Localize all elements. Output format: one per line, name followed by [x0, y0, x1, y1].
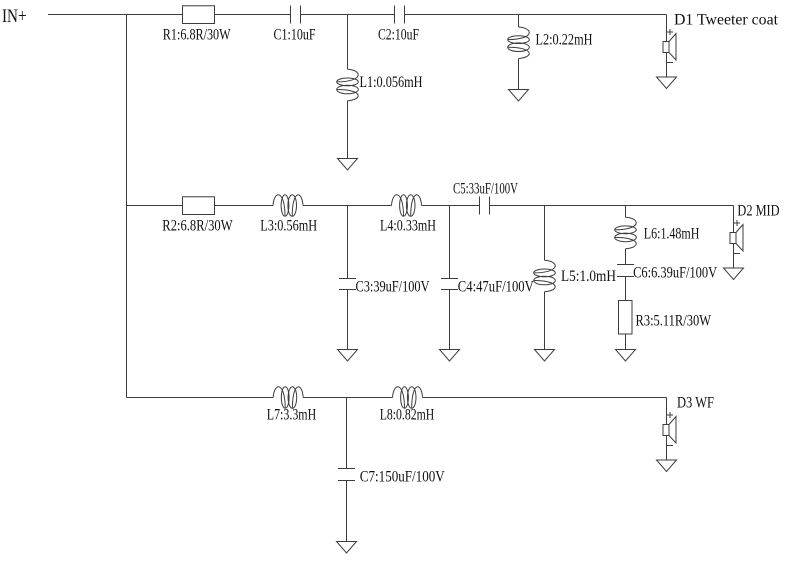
ground below C4: [440, 350, 460, 362]
wire L8 to D3: [423, 397, 667, 399]
svg-text:C7:150uF/100V: C7:150uF/100V: [360, 467, 445, 486]
wire middle row bus to R2: [127, 205, 183, 207]
capacitor C5: [480, 197, 490, 215]
svg-text:C6:6.39uF/100V: C6:6.39uF/100V: [633, 262, 717, 281]
svg-text:D2 MID: D2 MID: [737, 201, 779, 220]
svg-text:C4:47uF/100V: C4:47uF/100V: [458, 276, 534, 295]
svg-text:L7:3.3mH: L7:3.3mH: [267, 405, 317, 424]
inductor L7: [273, 387, 303, 409]
wire junction down to C3: [347, 206, 349, 279]
wire L2 to ground: [518, 59, 520, 90]
wire R2 to L3: [215, 205, 274, 207]
speaker D1: [657, 15, 677, 89]
capacitor C6: [617, 265, 634, 277]
inductor L2: [508, 27, 530, 59]
resistor R1: [183, 6, 215, 24]
capacitor C3: [339, 279, 356, 290]
ground below L2: [509, 90, 529, 102]
wire L5 to ground: [544, 292, 546, 350]
svg-text:R3:5.11R/30W: R3:5.11R/30W: [636, 310, 712, 329]
wire L1 to ground: [347, 101, 349, 159]
svg-text:L2:0.22mH: L2:0.22mH: [536, 30, 593, 49]
wire C6 to R3: [625, 277, 627, 301]
wire bottom row bus corner to L7: [127, 397, 274, 399]
svg-text:L5:1.0mH: L5:1.0mH: [561, 266, 616, 285]
capacitor C7: [338, 469, 355, 481]
wire C7 to ground: [346, 481, 348, 542]
inductor L6: [615, 217, 637, 249]
capacitor C4: [441, 279, 458, 290]
wire R3 to ground: [625, 334, 627, 350]
speaker D2: [724, 206, 744, 280]
ground below C7: [337, 542, 357, 554]
resistor R3: [619, 301, 633, 335]
wire top row IN+ to R1: [48, 14, 183, 16]
svg-text:L4:0.33mH: L4:0.33mH: [380, 216, 436, 235]
svg-text:C3:39uF/100V: C3:39uF/100V: [356, 276, 430, 295]
svg-text:R1:6.8R/30W: R1:6.8R/30W: [163, 24, 231, 43]
ground below L1: [338, 159, 358, 171]
ground below C3: [338, 350, 358, 362]
wire junction down to L6: [625, 206, 627, 218]
svg-text:R2:6.8R/30W: R2:6.8R/30W: [162, 216, 233, 235]
capacitor C2: [395, 6, 405, 24]
wire C2 to D1: [405, 14, 667, 16]
svg-text:L6:1.48mH: L6:1.48mH: [644, 224, 700, 243]
ground below L5: [535, 350, 555, 362]
inductor L5: [534, 260, 556, 292]
wire C4 to ground: [449, 290, 451, 350]
wire C3 to ground: [347, 290, 349, 350]
wire L6 to C6: [625, 249, 627, 265]
svg-text:D3 WF: D3 WF: [677, 393, 714, 412]
wire junction down to L2: [518, 15, 520, 28]
wire junction down to L5: [544, 206, 546, 261]
wire L4 to C5: [422, 205, 480, 207]
inductor L1: [337, 69, 359, 101]
speaker D3: [657, 398, 677, 472]
wire C5 to D2: [490, 205, 734, 207]
wire junction down to C7: [346, 398, 348, 469]
wire junction down to C4: [449, 206, 451, 279]
wire L7 to L8: [303, 397, 392, 399]
wire junction down to L1: [347, 15, 349, 70]
inductor L8: [393, 387, 423, 409]
svg-text:C1:10uF: C1:10uF: [274, 24, 316, 43]
resistor R2: [183, 197, 215, 215]
svg-text:C2:10uF: C2:10uF: [378, 24, 419, 43]
wire R1 to C1: [215, 14, 291, 16]
ground below R3: [616, 350, 636, 362]
wire vertical bus feeding all three rows: [126, 15, 128, 398]
svg-text:L1:0.056mH: L1:0.056mH: [360, 72, 423, 91]
inductor L4: [392, 195, 422, 217]
wire C1 to C2: [301, 14, 395, 16]
svg-text:D1 Tweeter coat: D1 Tweeter coat: [674, 9, 778, 28]
svg-text:IN+: IN+: [2, 6, 27, 27]
wire L3 to L4: [303, 205, 392, 207]
svg-text:L3:0.56mH: L3:0.56mH: [260, 216, 317, 235]
svg-text:C5:33uF/100V: C5:33uF/100V: [453, 179, 518, 198]
inductor L3: [273, 195, 303, 217]
capacitor C1: [291, 6, 301, 24]
svg-text:L8:0.82mH: L8:0.82mH: [380, 405, 435, 424]
